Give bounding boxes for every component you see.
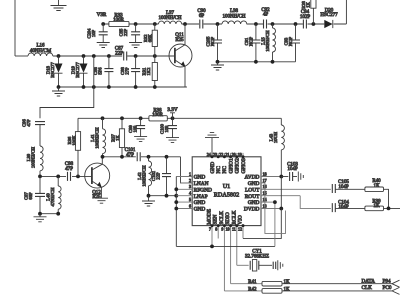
- inductor L39: [26, 146, 43, 176]
- svg-text:104P: 104P: [338, 185, 349, 190]
- capacitor crystal load: [273, 262, 276, 269]
- node MODE junction: [210, 245, 214, 249]
- pin 19 GPIO3: [238, 152, 247, 174]
- node AVDD junction: [279, 175, 283, 179]
- ground Q12 emitter: [95, 198, 108, 203]
- wire RF LNA y156.8: [101, 157, 192, 183]
- svg-text:18: 18: [263, 171, 267, 176]
- svg-text:12: 12: [238, 227, 242, 232]
- capacitor C86: [93, 56, 113, 87]
- wire ground net bottom y246.4: [176, 245, 275, 247]
- pin 10 SDIO: [225, 212, 231, 284]
- svg-text:C87: C87: [115, 46, 124, 51]
- pin 13 DVDD: [244, 203, 281, 212]
- svg-text:1K: 1K: [373, 184, 380, 189]
- svg-text:GPIO2: GPIO2: [235, 158, 241, 174]
- inductor L15: [261, 24, 276, 62]
- capacitor C87 series: [115, 46, 127, 60]
- capacitor C93: [284, 24, 301, 62]
- pin 20 GPIO2: [232, 152, 241, 174]
- node GND bus junctions: [174, 187, 178, 210]
- pin 14 GND: [248, 197, 275, 206]
- transistor Q12: [85, 157, 110, 200]
- inductor L40: [46, 176, 62, 213]
- ground above pin 24: [205, 133, 219, 157]
- wire filter node y176.4: [40, 175, 92, 177]
- ground sideways at C103: [298, 172, 303, 182]
- svg-text:ROUT: ROUT: [245, 194, 260, 200]
- wire pin14 GND drop: [274, 202, 276, 246]
- wire antenna to L16: [15, 55, 28, 57]
- svg-text:104P: 104P: [338, 205, 349, 210]
- capacitor C105: [332, 180, 365, 193]
- ground mid section: [211, 62, 224, 70]
- svg-text:GND: GND: [194, 200, 206, 206]
- wire antenna left vertical: [14, 0, 16, 56]
- resistor R28 top clipped: [301, 0, 316, 24]
- svg-text:100NH/CH: 100NH/CH: [158, 16, 181, 21]
- svg-text:3: 3: [189, 184, 191, 189]
- svg-text:27P: 27P: [125, 67, 130, 75]
- capacitor C85: [119, 24, 143, 48]
- inductor L37: [158, 11, 181, 24]
- wire mid ground y61.8: [218, 61, 296, 63]
- capacitor C90 series: [197, 9, 206, 28]
- svg-text:22P: 22P: [115, 52, 123, 57]
- resistor R38: [149, 108, 167, 120]
- svg-text:10P: 10P: [91, 29, 96, 37]
- wire ROUT jog: [300, 196, 331, 209]
- svg-text:100R: 100R: [152, 113, 164, 118]
- svg-text:LNAN: LNAN: [194, 181, 209, 187]
- svg-text:102P: 102P: [300, 15, 311, 20]
- transistor Q11: [169, 24, 192, 87]
- wire ground return y87: [59, 86, 187, 88]
- pin 9 SCLK: [219, 211, 225, 291]
- svg-text:100K: 100K: [72, 135, 77, 146]
- svg-text:4P: 4P: [263, 13, 269, 18]
- svg-text:7: 7: [209, 227, 211, 232]
- wire rail 3.3V y118.3: [78, 117, 281, 119]
- svg-text:CLK: CLK: [362, 285, 373, 291]
- wire audio output to edge: [384, 207, 400, 209]
- label CLK PC0: [362, 285, 392, 291]
- ground LNA: [142, 196, 155, 206]
- svg-text:SEN: SEN: [213, 215, 219, 225]
- svg-text:GND: GND: [194, 175, 206, 181]
- svg-text:GPIO3: GPIO3: [241, 158, 247, 174]
- wire RCLK to crystal: [237, 264, 249, 266]
- svg-text:RDA5802: RDA5802: [214, 192, 239, 199]
- resistor R31: [142, 56, 158, 87]
- wire SDIO to R41: [231, 283, 262, 285]
- inductor L43: [269, 118, 285, 176]
- svg-text:11: 11: [232, 227, 236, 232]
- svg-text:4: 4: [189, 191, 191, 196]
- resistor R37: [111, 118, 125, 157]
- svg-text:103: 103: [164, 125, 169, 133]
- capacitor C88: [120, 56, 140, 87]
- ground input filter: [34, 214, 47, 222]
- svg-text:RCLK: RCLK: [231, 210, 237, 224]
- inductor L41: [90, 118, 106, 157]
- ground sideways at crystal: [278, 260, 283, 270]
- inductor L16: [28, 44, 53, 56]
- svg-text:RSC277: RSC277: [75, 62, 80, 78]
- svg-text:VIO: VIO: [238, 215, 244, 225]
- svg-text:GND: GND: [248, 181, 260, 187]
- node top pin dots: [211, 155, 245, 158]
- power 3.3V tap: [167, 107, 177, 118]
- svg-text:24: 24: [207, 152, 211, 157]
- node main wire junctions: [57, 54, 157, 58]
- pin 21 GPIO1: [225, 152, 234, 174]
- svg-text:AVDD: AVDD: [245, 175, 260, 181]
- svg-text:40NH/CM: 40NH/CM: [30, 49, 52, 54]
- svg-text:NOP: NOP: [249, 36, 254, 46]
- svg-text:100NH/CH: 100NH/CH: [31, 146, 36, 168]
- svg-text:R41: R41: [248, 280, 257, 285]
- resistor R36: [67, 118, 81, 176]
- pin 24 GND top: [207, 152, 216, 174]
- svg-text:100NH/CH: 100NH/CH: [222, 14, 245, 19]
- node DVDD junction: [279, 207, 283, 211]
- svg-text:HSC277: HSC277: [320, 13, 338, 18]
- node audio output junction: [387, 207, 391, 211]
- svg-text:100R: 100R: [113, 18, 125, 23]
- svg-text:NOP: NOP: [288, 36, 293, 46]
- svg-text:104P: 104P: [287, 167, 298, 172]
- pin 15 ROUT: [245, 191, 300, 200]
- diode D19: [71, 56, 88, 87]
- capacitor C104: [332, 200, 365, 212]
- pin 3 RFGND: [176, 184, 212, 193]
- capacitor C204: [87, 24, 110, 48]
- svg-text:1: 1: [189, 171, 191, 176]
- pin 1 GND: [176, 171, 205, 180]
- svg-text:19: 19: [238, 152, 242, 157]
- capacitor C103: [281, 162, 298, 181]
- wire DVDD to VIO: [243, 209, 281, 239]
- resistor R41: [248, 280, 290, 286]
- svg-text:17: 17: [263, 178, 267, 183]
- svg-text:8: 8: [215, 227, 217, 232]
- svg-text:GND: GND: [210, 162, 216, 174]
- svg-text:47P: 47P: [65, 167, 73, 172]
- svg-text:10UH: 10UH: [273, 131, 278, 143]
- capacitor C94 series: [300, 10, 311, 28]
- wire filter ground y213.7: [40, 213, 58, 215]
- svg-text:1K: 1K: [115, 135, 120, 141]
- resistor R39: [365, 199, 384, 210]
- node bottom pin dots: [211, 224, 245, 227]
- svg-text:GND: GND: [194, 207, 206, 213]
- pin 12 VIO: [238, 215, 244, 238]
- diode D18: [46, 56, 63, 87]
- svg-text:1K2: 1K2: [146, 67, 151, 76]
- svg-text:P94: P94: [383, 278, 391, 284]
- pin 18 AVDD: [245, 171, 282, 180]
- svg-text:68K: 68K: [148, 34, 153, 43]
- capacitor C92 series: [261, 8, 270, 29]
- svg-text:47P: 47P: [126, 153, 134, 158]
- svg-text:21: 21: [225, 152, 229, 157]
- svg-text:LOUT: LOUT: [245, 187, 260, 193]
- pin 22 NC: [219, 152, 228, 174]
- node rail2 junctions: [101, 116, 175, 120]
- resistor R40: [365, 179, 384, 191]
- wire main RF y56: [53, 55, 175, 57]
- svg-text:RSC277: RSC277: [50, 62, 55, 78]
- capacitor C101 series: [125, 148, 141, 161]
- svg-text:MODE: MODE: [207, 208, 213, 225]
- svg-text:1K: 1K: [373, 204, 380, 209]
- svg-text:PC0: PC0: [383, 285, 392, 291]
- inductor L38: [222, 9, 247, 24]
- svg-text:6P: 6P: [199, 14, 205, 19]
- node pin14 junction: [273, 200, 277, 204]
- node rail junctions: [101, 22, 315, 26]
- capacitor C99: [128, 118, 147, 141]
- wire drop from main RF to input filter: [40, 56, 94, 118]
- pin 8 SEN: [213, 215, 219, 239]
- ground top-left: [51, 0, 67, 11]
- pin 17 GND: [248, 178, 267, 187]
- pin 7 MODE: [207, 208, 213, 246]
- svg-text:100NH/CH: 100NH/CH: [95, 127, 100, 149]
- resistor R42: [248, 287, 290, 293]
- crystal CY1: [245, 250, 269, 271]
- svg-text:2: 2: [189, 178, 191, 183]
- svg-text:NC: NC: [222, 166, 228, 174]
- svg-text:DATA: DATA: [362, 278, 376, 284]
- capacitor C97: [24, 176, 46, 213]
- pin 2 LNAN: [181, 178, 209, 187]
- svg-text:100NH/CH: 100NH/CH: [142, 165, 147, 187]
- node RF LNA junctions: [101, 155, 169, 159]
- inductor L42: [137, 157, 152, 196]
- wire pin17 GND route: [265, 183, 286, 234]
- pin 23 NC: [213, 152, 222, 174]
- resistor R32: [143, 24, 157, 56]
- svg-text:V3R: V3R: [97, 12, 107, 18]
- node filter junctions: [38, 175, 80, 179]
- capacitor C98 series: [65, 162, 74, 181]
- capacitor C102: [151, 157, 171, 196]
- svg-text:5: 5: [189, 197, 191, 202]
- svg-text:SCLK: SCLK: [219, 211, 225, 225]
- wire R41 to connector DATA: [282, 283, 392, 285]
- svg-text:23: 23: [213, 152, 217, 157]
- svg-text:22P: 22P: [156, 172, 161, 180]
- svg-text:47P: 47P: [26, 119, 31, 127]
- label DATA P94: [362, 278, 391, 284]
- svg-text:GND: GND: [248, 200, 260, 206]
- pin 5 GND: [176, 197, 205, 206]
- svg-text:100NH/CH: 100NH/CH: [265, 30, 270, 52]
- svg-text:47NH/CH: 47NH/CH: [50, 187, 55, 207]
- svg-text:103: 103: [133, 125, 138, 133]
- svg-text:R25: R25: [92, 195, 101, 200]
- svg-text:10: 10: [226, 227, 230, 232]
- svg-text:DVDD: DVDD: [244, 207, 260, 213]
- wire rail V3R y24: [103, 0, 346, 24]
- pin 16 LOUT: [245, 184, 331, 193]
- op-amp U1 RDA5802 IC body: [192, 157, 261, 226]
- wire SCLK to R42: [224, 290, 262, 292]
- svg-text:9: 9: [221, 227, 223, 232]
- wire R42 to connector CLK: [282, 290, 392, 292]
- svg-text:R42: R42: [248, 287, 257, 292]
- svg-text:SDIO: SDIO: [225, 212, 231, 225]
- svg-text:NOP: NOP: [210, 36, 215, 46]
- resistor R33: [109, 13, 129, 26]
- svg-text:5P6: 5P6: [98, 67, 103, 75]
- svg-text:U1: U1: [223, 183, 231, 190]
- svg-text:3.3V: 3.3V: [167, 107, 177, 113]
- svg-text:1K: 1K: [284, 287, 291, 292]
- svg-text:22: 22: [219, 152, 223, 157]
- svg-text:1K: 1K: [284, 280, 291, 285]
- svg-text:LNAP: LNAP: [194, 194, 208, 200]
- node ground return junctions: [57, 85, 157, 89]
- capacitor C91: [244, 24, 260, 62]
- capacitor C205: [206, 24, 223, 62]
- connector wedge CLK: [392, 287, 400, 294]
- wire crystal to load cap: [259, 264, 272, 266]
- pin 6 GND: [176, 203, 205, 212]
- connector wedge DATA: [392, 280, 400, 287]
- pin 11 RCLK: [231, 210, 237, 265]
- svg-text:R25: R25: [175, 38, 184, 43]
- ground below diodes: [52, 87, 65, 96]
- svg-text:1K: 1K: [306, 2, 311, 8]
- svg-text:20: 20: [232, 152, 236, 157]
- node mid ground junctions: [216, 60, 275, 64]
- svg-text:22P: 22P: [123, 28, 128, 36]
- svg-text:32.768KHZ: 32.768KHZ: [245, 255, 269, 260]
- wire AVDD to DVDD column: [280, 177, 282, 209]
- svg-text:GPIO1: GPIO1: [228, 158, 234, 174]
- svg-text:6: 6: [189, 203, 191, 208]
- pin 4 LNAP: [176, 191, 207, 200]
- svg-text:NC: NC: [216, 166, 222, 174]
- svg-text:68P: 68P: [28, 192, 33, 200]
- svg-text:RFGND: RFGND: [194, 187, 212, 193]
- wire GND bus left of U1: [175, 177, 177, 247]
- capacitor C96: [22, 118, 46, 146]
- diode D20: [320, 9, 338, 29]
- wire R40 to output node: [384, 189, 389, 208]
- capacitor C100: [160, 118, 180, 142]
- wire LNA ground y195.7: [149, 195, 177, 197]
